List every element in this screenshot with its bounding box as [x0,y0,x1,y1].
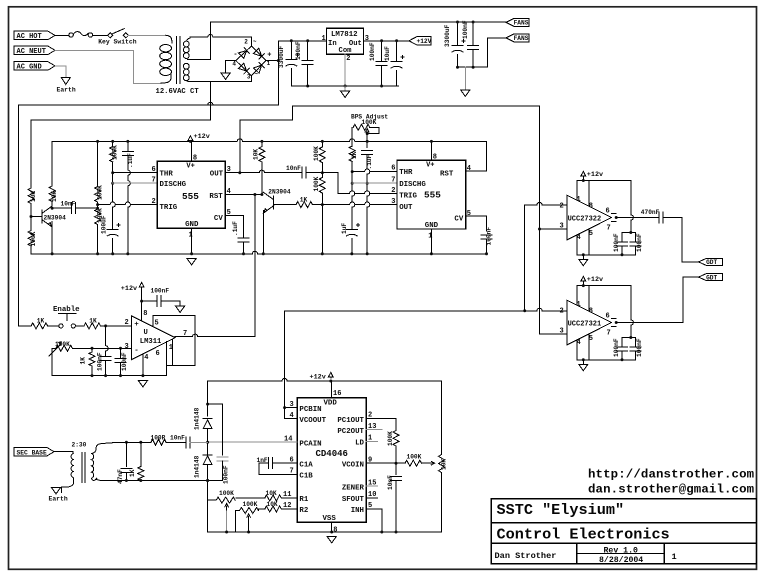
connector flag AC NEUT [14,46,55,54]
ground symbol bridge negative [221,73,230,79]
svg-text:R2: R2 [299,507,308,515]
connector flag GDT bottom [699,274,723,281]
svg-text:OUT: OUT [210,171,224,179]
svg-text:2: 2 [152,198,156,206]
wire pot left end down to ground rail [52,348,56,375]
svg-text:AC HOT: AC HOT [17,33,42,41]
svg-text:+: + [134,321,139,329]
svg-text:10nF: 10nF [387,475,394,490]
svg-text:PCAIN: PCAIN [299,440,321,448]
potentiometer 100K on R1 [236,497,265,499]
wire +12v rail down to caps [631,181,634,233]
wire pins 1 8 up [577,181,589,207]
svg-text:6: 6 [152,166,156,174]
svg-text:Key Switch: Key Switch [98,38,137,45]
transformer T1 secondary winding lower [183,63,189,69]
svg-text:100nF: 100nF [223,465,230,484]
power symbol +12v at 555 #1 [188,136,193,142]
wire INH pin5 to ground [366,509,382,532]
capacitor 10nF loop filter [395,463,397,474]
resistor 1K timing [349,146,355,162]
ground symbol LM311 [138,381,147,387]
transistor Q2 2N3904 reset driver [273,196,275,209]
resistor 100K to VCO pot [405,460,421,466]
wire Q2 emitter to ground [262,210,264,253]
svg-text:3: 3 [560,328,564,336]
bridge rectifier diamond [250,37,252,82]
svg-text:SEC BASE: SEC BASE [17,449,47,456]
svg-text:5: 5 [467,210,471,218]
stub PC2OUT pin13 [366,429,382,431]
power +12v UCC27321 [581,276,586,282]
wire BPS wiper node down through rail [366,134,368,148]
bridge diode upper-right [254,48,262,56]
capacitor 100nF UCC27321 bypass B [634,338,636,348]
svg-text:10nF: 10nF [286,165,301,172]
power +12v at CD4046 [328,372,333,378]
capacitor 3300uF fan filter [457,22,459,46]
svg-text:http://danstrother.com: http://danstrother.com [588,468,754,482]
wire +12v to LM311 pin8 [141,288,143,321]
svg-text:8: 8 [193,155,197,163]
resistor 1K enable left [31,323,47,329]
svg-text:8: 8 [589,202,593,210]
svg-text:UCC27321: UCC27321 [568,320,602,328]
wire CV 555#2 pin5 to 100nF [466,216,487,231]
svg-text:THR: THR [399,169,413,177]
resistor 10K sync divider upper [30,120,32,188]
svg-text:3: 3 [247,73,251,80]
svg-text:VCOIN: VCOIN [342,461,364,469]
wire Q1 emitter to ground rail [51,222,53,254]
transistor Q1 2N3904 sync [31,216,42,218]
svg-text:AC GND: AC GND [17,64,42,72]
UCC27322 ground rail [577,254,636,256]
resistor 10K Q1 collector load [51,141,53,186]
svg-text:10K: 10K [266,490,277,497]
wire THR 555#1 [113,172,158,174]
wire DISCHG 555#1 [113,182,158,184]
svg-text:2:30: 2:30 [72,442,87,449]
transformer T1 primary winding [166,35,172,43]
svg-text:UCC27322: UCC27322 [568,215,602,223]
junction sync divider [30,204,32,217]
capacitor 100nF on CV 555#2 [481,234,492,236]
diode D3 1N4148 clamp lower [207,442,209,454]
power +12v at LM311 [139,282,144,288]
svg-text:In: In [328,40,337,48]
power flag +12V [409,37,431,45]
wire GND pin1 555#1 [191,228,193,254]
capacitor 100nF output [381,41,383,62]
wire VSS pin8 to ground rail [331,522,333,532]
wire bridge positive output [266,60,278,62]
capacitor 100uF timing [107,229,118,231]
svg-text:47nF: 47nF [117,469,124,484]
svg-text:Rev 1.0: Rev 1.0 [604,546,638,555]
wire +12v rail left end to clamp [207,381,209,404]
capacitor 10nF coupling Q1 [52,207,71,209]
svg-text:dan.strother@gmail.com: dan.strother@gmail.com [588,482,754,496]
svg-text:5: 5 [155,320,159,328]
svg-text:+: + [267,52,271,60]
capacitor 100nF raw filter [307,41,309,61]
svg-text:10K: 10K [440,459,447,470]
resistor 100K trig divider upper [95,187,101,203]
svg-text:8/28/2004: 8/28/2004 [599,555,643,565]
svg-text:10K: 10K [30,191,37,202]
svg-text:8: 8 [433,154,437,162]
wire AC GND to earth [55,66,66,77]
svg-text:470nF: 470nF [641,209,660,216]
svg-text:100K: 100K [112,145,119,160]
svg-text:2: 2 [560,203,564,211]
wire bridge negative to ground [226,61,236,73]
wire +12v feed left chain [97,141,99,186]
transformer T2 core [82,453,85,483]
title block box [491,499,756,564]
CD4046 ground rail [208,531,442,533]
resistor 100K interstage lower [321,173,323,178]
svg-text:1: 1 [322,35,326,43]
svg-text:10K: 10K [267,501,278,508]
wire AC NEUT to transformer [55,50,161,83]
svg-text:LD: LD [355,440,364,448]
svg-text:5: 5 [589,335,593,343]
wire T2 primary to earth [62,480,74,493]
svg-text:100K: 100K [387,431,394,446]
wire LM7812 Com pin 2 to ground rail [344,54,346,86]
svg-text:100nF: 100nF [369,42,376,61]
svg-text:100K: 100K [219,490,234,497]
svg-text:ZENER: ZENER [342,484,365,492]
svg-text:10uF: 10uF [384,46,391,61]
svg-text:TRIG: TRIG [399,193,417,201]
svg-text:RST: RST [440,171,454,179]
svg-text:100nF: 100nF [613,233,620,252]
wire +12v rail down to caps U6 [631,286,634,338]
svg-text:C1B: C1B [299,473,313,481]
IC U7 CD4046 box [297,398,366,523]
svg-text:PCBIN: PCBIN [299,406,321,414]
wire T1 secondary bottom down to sync divider [31,82,210,188]
svg-text:8: 8 [589,307,593,315]
driver U6 UCC27321 triangle [567,300,612,345]
svg-text:LM311: LM311 [140,338,162,346]
capacitor 100nF UCC27322 bypass B [634,233,636,243]
resistor 10K on R2 [281,508,297,510]
svg-text:Control Electronics: Control Electronics [497,526,670,544]
wire 1K junction to 555#2 OUT [322,202,397,205]
stub LD pin1 [366,441,377,443]
capacitor 100nF PLL input [217,456,228,458]
svg-text:CV: CV [454,216,463,224]
connector flag AC HOT [14,31,55,39]
svg-text:+12v: +12v [587,171,603,179]
svg-text:1K: 1K [89,317,97,324]
svg-text:FANS: FANS [514,35,529,42]
svg-text:CV: CV [214,215,223,223]
svg-text:+12v: +12v [194,133,210,141]
wire center tap up to fan supply rail [209,22,211,60]
svg-text:Earth: Earth [57,87,76,94]
wire T2 secondary top to filter [100,442,126,444]
wire fan return to FANS flag [488,38,506,67]
resistor 10K on R1 [281,497,297,499]
svg-text:100K: 100K [243,501,258,508]
connector flag FANS top [506,18,529,26]
svg-text:VSS: VSS [323,515,337,523]
svg-text:8: 8 [143,310,147,318]
svg-text:3300uF: 3300uF [278,45,285,68]
svg-text:+12v: +12v [121,285,137,293]
svg-text:1K: 1K [80,357,87,365]
capacitor 0.1uF on CV [238,237,249,239]
svg-text:7: 7 [152,177,156,185]
diode D2 1N4148 clamp upper [207,404,209,416]
wire DISCHG 555#2 [352,182,397,184]
svg-text:8: 8 [333,527,337,535]
svg-text:U: U [144,329,148,337]
svg-text:2N3904: 2N3904 [268,189,291,196]
wire LM311 pin4 to ground [142,354,144,376]
svg-text:6: 6 [606,208,610,216]
wire LM311 output up to RST node [254,195,256,337]
svg-text:2: 2 [346,55,350,63]
svg-text:+12V: +12V [417,38,432,45]
wire fan supply rail [210,21,506,23]
BPS pot wiper arrow [365,129,369,134]
svg-text:OUT: OUT [399,204,413,212]
transformer T1 core [176,37,180,84]
stub SFOUT pin10 [366,497,377,499]
wire driver pin2 tie vertical [524,205,526,311]
svg-text:5: 5 [589,230,593,238]
wire pins 4 5 down U6 [577,334,589,360]
wire UCC27322 pin3 [540,228,567,230]
wire RST 555#1 pin4 [225,194,262,196]
title block divider lines [491,523,756,564]
svg-text:1K: 1K [37,317,45,324]
bridge diode lower-right [254,65,262,73]
svg-text:2: 2 [244,39,248,46]
svg-text:100nF: 100nF [96,352,103,371]
svg-text:10nF: 10nF [170,434,185,441]
svg-text:GDT: GDT [706,274,717,281]
wire rail into LM7812 [278,40,326,42]
+12V rail of 555 oscillators [52,139,486,142]
svg-text:4: 4 [232,60,236,67]
svg-text:VCOOUT: VCOOUT [299,417,326,425]
ground symbol fan filter [464,67,466,89]
svg-text:6: 6 [606,313,610,321]
wire OUT up over to drivers net [240,106,540,173]
svg-text:7: 7 [391,176,395,184]
wire VDD pin16 [331,381,333,398]
wire bypass caps top rail U6 [622,337,635,339]
svg-text:3: 3 [125,343,129,351]
wire T1 secondary top to bridge [190,35,252,38]
svg-text:100R: 100R [151,434,166,441]
capacitor 100nF fan filter [472,22,474,46]
connector flag AC GND [14,62,55,70]
svg-text:100nF: 100nF [295,41,302,60]
svg-text:100nF: 100nF [636,338,643,357]
svg-text:100K: 100K [96,185,103,200]
IC U4 555 timer #2 box [397,160,466,229]
svg-text:6: 6 [156,350,160,358]
potentiometer 10K VCO range [441,381,443,455]
svg-text:C1A: C1A [299,461,313,469]
junction bridge positive [277,59,280,62]
resistor 100K sync divider lower [30,217,32,231]
wire UCC27321 output pins 6 7 [612,319,617,327]
svg-text:+12v: +12v [310,374,326,382]
resistor 100K trig divider lower [95,209,101,225]
wire AC HOT to fuse [55,34,69,36]
capacitor 100nF UCC27322 bypass A [621,233,623,243]
svg-text:1K: 1K [300,197,308,204]
svg-text:DISCHG: DISCHG [160,181,187,189]
capacitor 3300uF raw filter [290,41,292,60]
R1 pot wiper [225,504,229,512]
wire coupling node to 555#2 TRIG [322,172,338,174]
capacitor 100nF on pin3 [120,348,122,358]
capacitor 47nF input filter [125,441,128,444]
wire T2 secondary bottom return [97,480,223,481]
wire VCO output net to driver inputs [285,310,525,312]
svg-text:DISCHG: DISCHG [399,181,426,189]
svg-text:THR: THR [160,171,174,179]
svg-text:100K: 100K [407,454,422,461]
comparator U1 LM311 triangle [132,316,176,360]
transformer T2 primary winding [71,454,74,481]
ground symbol LM311 bypass [176,306,185,312]
svg-text:Dan Strother: Dan Strother [495,551,557,561]
svg-text:SFOUT: SFOUT [342,496,365,504]
resistor 1K input load [139,441,142,444]
svg-text:RST: RST [209,193,223,201]
capacitor 0.1uF on DISCHG [362,150,373,152]
svg-text:7: 7 [607,225,611,233]
wire pins 1 8 up U6 [577,286,589,312]
wire CV 555#1 pin5 [225,216,243,224]
svg-text:AC NEUT: AC NEUT [17,48,46,56]
wire clamp node to 100nF [208,404,223,455]
svg-text:2: 2 [391,187,395,195]
svg-text:1K: 1K [351,151,358,159]
svg-text:10nF: 10nF [61,200,76,207]
svg-text:2N3904: 2N3904 [44,215,67,222]
wire fan ground rail [458,66,488,68]
svg-text:3: 3 [560,223,564,231]
resistor 1K Q2 base [296,202,312,208]
svg-text:100K: 100K [313,176,320,191]
wire VCOIN pin9 [366,462,405,464]
connector flag SEC BASE [14,448,54,456]
bridge diode upper-left [239,51,247,59]
svg-text:Earth: Earth [49,496,68,503]
svg-text:TRIG: TRIG [160,204,178,212]
svg-text:INH: INH [351,507,364,515]
wire LM311 balance strap pins 5 6 1 [153,315,195,375]
svg-text:GDT: GDT [706,259,717,266]
wire GND pin1 555#2 [430,229,432,254]
wire PC1OUT pin2 to loop filter [366,419,396,431]
wire pins 4 5 down to ground [577,229,589,255]
driver U5 UCC27322 triangle [567,195,612,240]
wire V+ pin8 555#1 [191,141,193,161]
ground symbol UCC27322 [582,255,584,259]
regulator U2 LM7812 box [327,28,364,54]
svg-text:1uF: 1uF [341,223,348,234]
svg-text:-: - [134,347,139,355]
wire Q2 base to 1K [274,204,296,206]
svg-text:3300uF: 3300uF [444,24,451,47]
svg-text:-: - [233,51,237,59]
ground rail under LM7812 [291,85,398,87]
svg-text:100nF: 100nF [151,287,170,294]
wire OUT 555#1 pin3 [225,170,302,173]
fuse F1 [69,33,73,37]
svg-text:V+: V+ [186,163,194,171]
ground rail main [31,251,487,254]
wire T1 secondary bottom to bridge [190,81,252,83]
LM311 ground rail [52,375,167,377]
svg-text:100uF: 100uF [100,215,107,234]
svg-text:3: 3 [391,198,395,206]
svg-text:FANS: FANS [514,20,529,27]
VCO pot wiper arrow [422,461,435,465]
potentiometer 100K on R2 [240,508,259,514]
wire BPS pot left to 1K [351,127,353,146]
svg-text:100K: 100K [30,231,37,246]
wire pot to LM311 pin3 [72,347,131,349]
svg-text:2: 2 [560,308,564,316]
svg-text:SSTC "Elysium": SSTC "Elysium" [497,501,625,519]
power +12v UCC27322 [581,171,586,177]
wire LM311 output pin7 [175,334,255,337]
wire PCAIN pin14 [208,441,298,443]
svg-text:V+: V+ [426,161,434,169]
stub ZENER pin15 [366,485,377,487]
svg-text:7: 7 [607,330,611,338]
wire Q1 collector to 10K [51,202,53,206]
svg-text:4: 4 [144,354,148,362]
svg-text:+12v: +12v [587,276,603,284]
svg-text:1K: 1K [129,469,136,477]
svg-text:555: 555 [182,191,199,202]
svg-text:100K: 100K [313,146,320,161]
ground symbol LM7812 [344,86,346,91]
wire bypass caps top rail [622,232,635,234]
connector flag FANS bottom [506,34,529,42]
bridge diode lower-left [239,63,247,71]
+12v rail CD4046 [208,378,442,381]
svg-text:3: 3 [365,35,369,43]
transformer T1 secondary winding upper [183,41,189,47]
ground symbol main rail [187,259,196,265]
resistor 1K enable right [75,325,84,327]
svg-text:1n4148: 1n4148 [194,407,201,430]
ground symbol UCC27321 [582,360,584,364]
wire timing node down to 1uF [352,172,355,225]
svg-text:~: ~ [253,39,257,46]
wire 555#1 OUT net to driver pin3s [539,106,541,334]
svg-text:100nF: 100nF [462,20,469,39]
wire UCC27322 output pins 6 7 [612,214,617,222]
resistor 10K RST pull-up [261,141,263,146]
